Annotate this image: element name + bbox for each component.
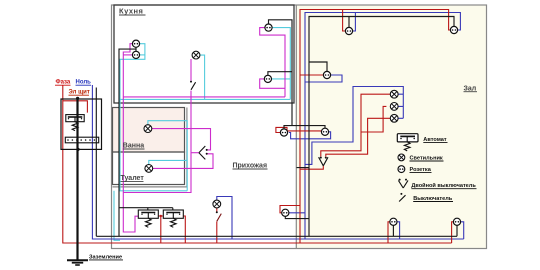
svg-text:Кухня: Кухня (119, 7, 143, 16)
svg-text:Ноль: Ноль (76, 80, 92, 86)
svg-text:Двойной выключатель: Двойной выключатель (411, 182, 476, 189)
svg-text:Фаза: Фаза (56, 80, 71, 86)
svg-text:Эл щит: Эл щит (69, 90, 90, 96)
svg-text:Туалет: Туалет (121, 175, 145, 182)
